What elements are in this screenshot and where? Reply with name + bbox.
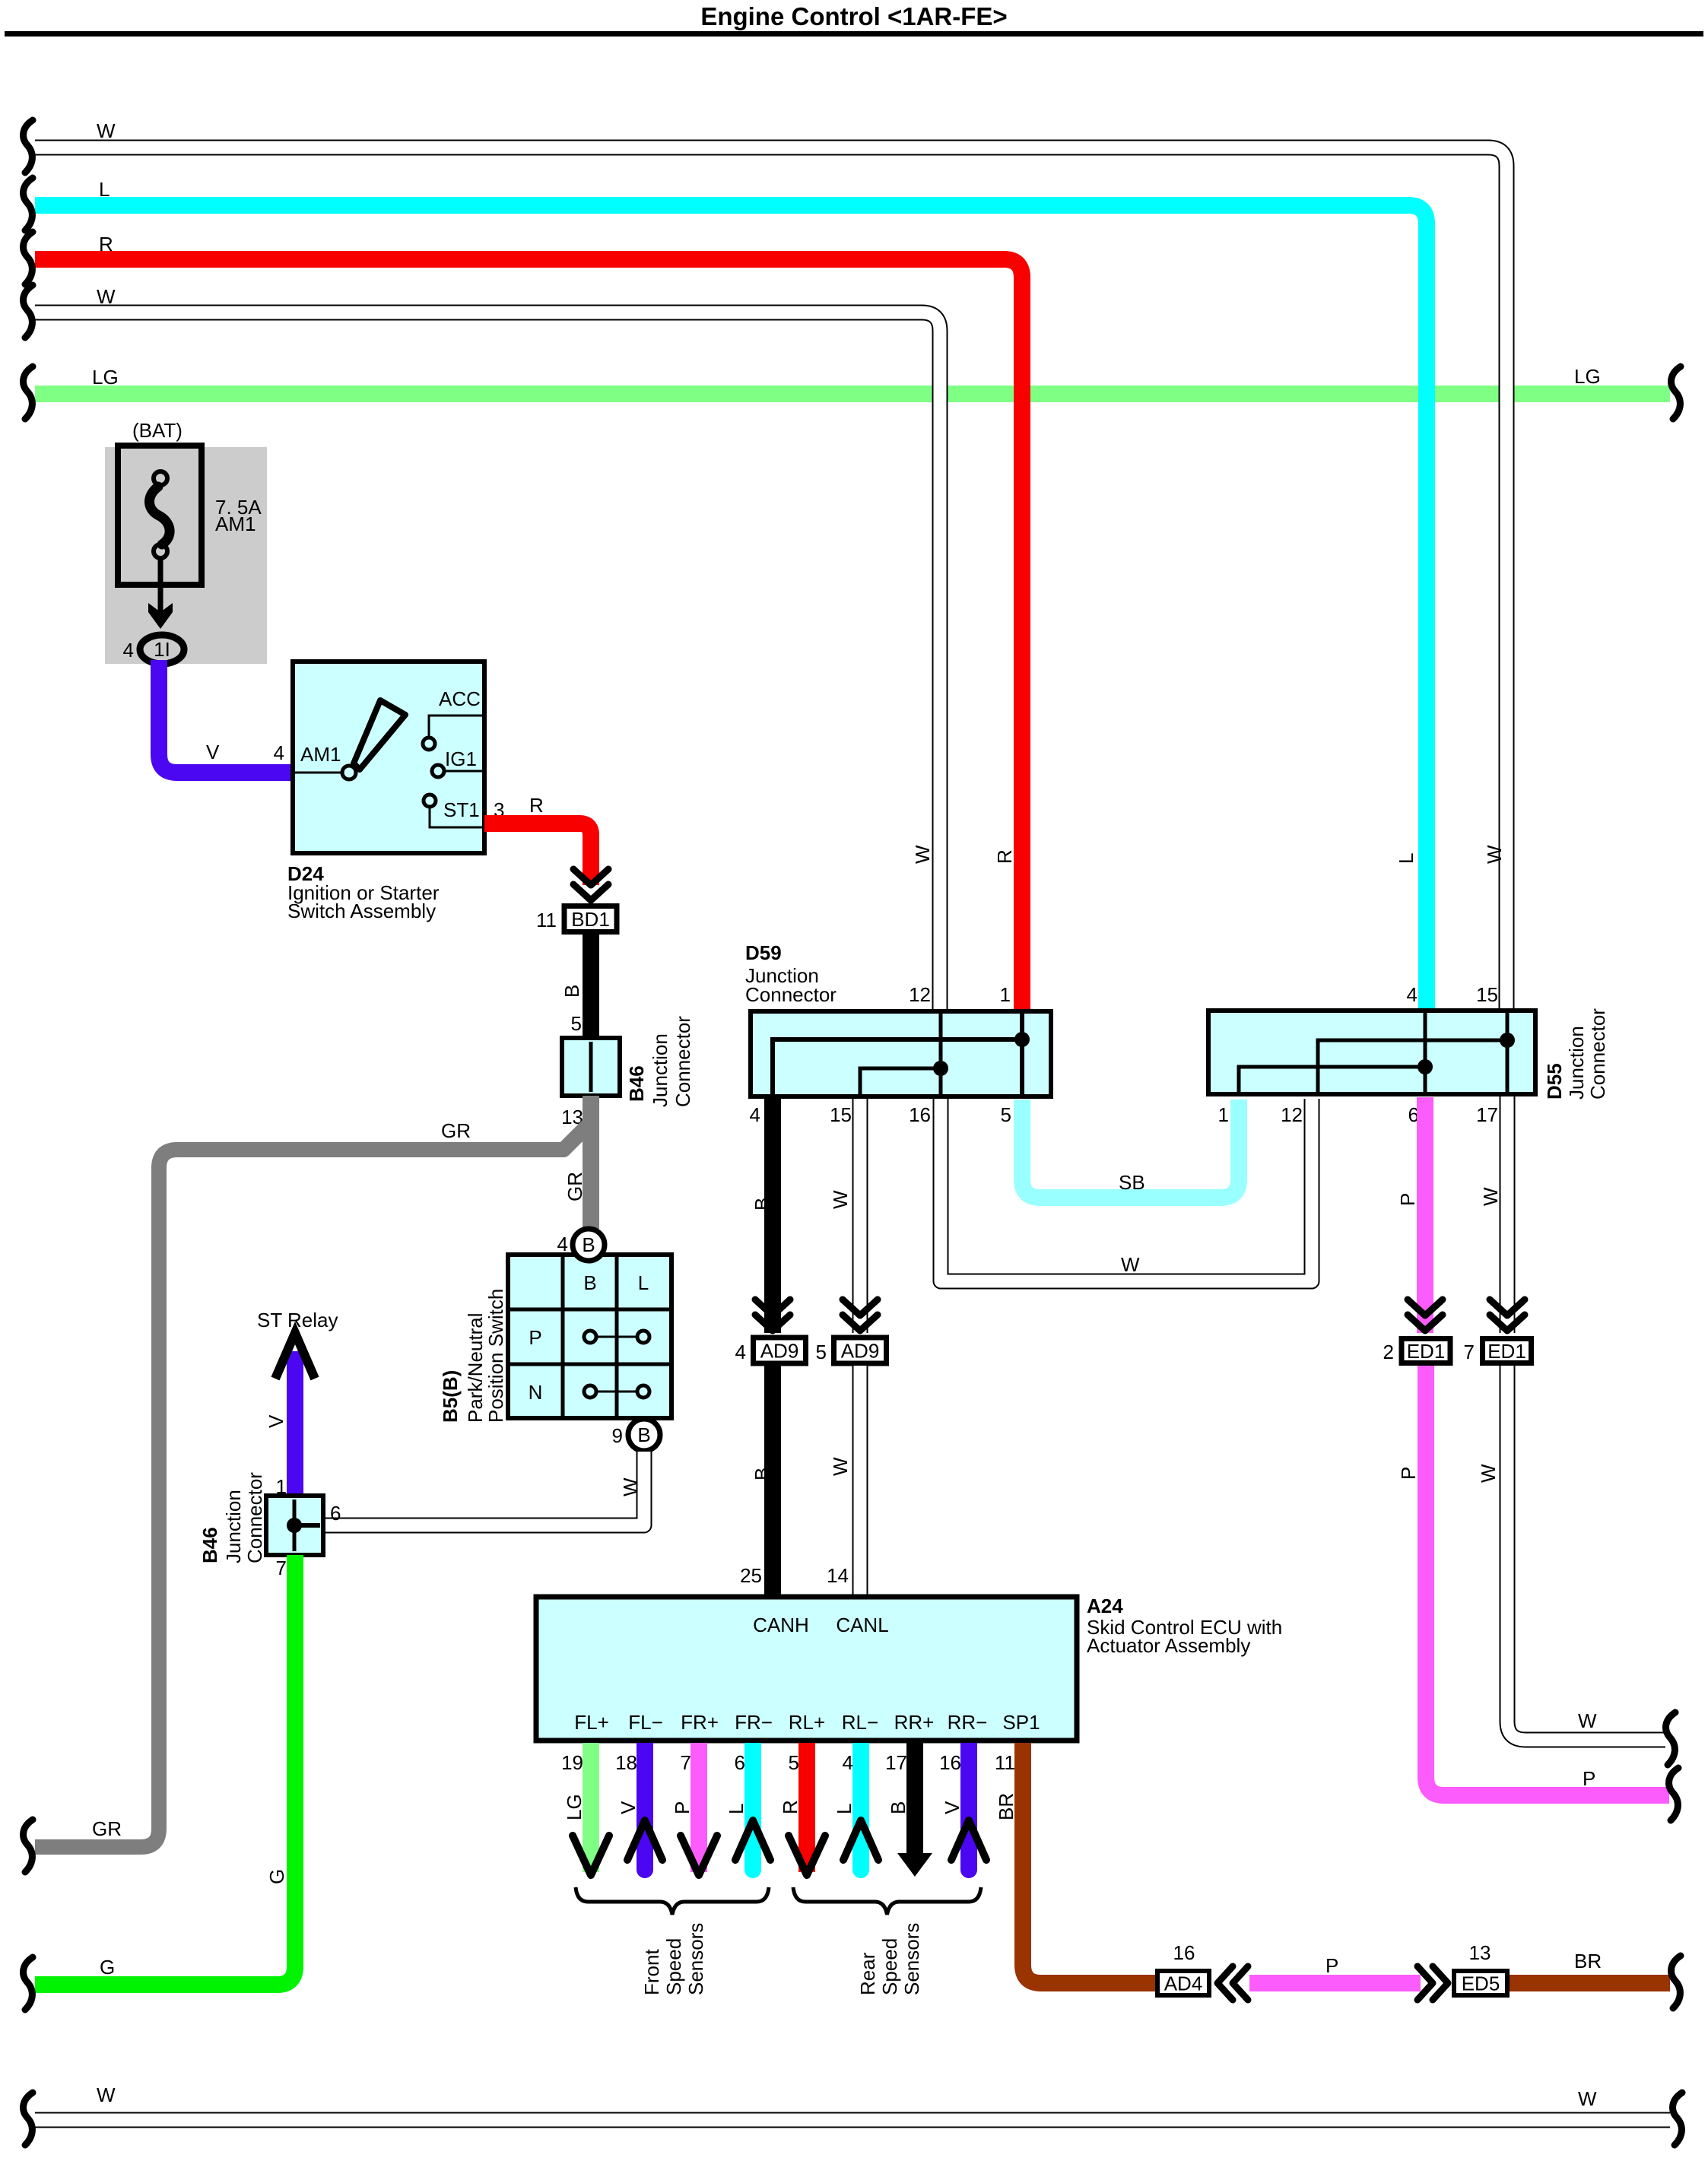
svg-text:P: P (1397, 1467, 1420, 1480)
svg-text:1: 1 (1218, 1103, 1229, 1126)
svg-text:Connector: Connector (745, 983, 837, 1006)
svg-text:1I: 1I (154, 638, 170, 661)
svg-text:W: W (829, 1457, 852, 1476)
svg-text:L: L (833, 1804, 856, 1814)
svg-text:P: P (1396, 1193, 1419, 1206)
svg-text:D59: D59 (745, 941, 782, 964)
svg-text:W: W (1479, 1187, 1502, 1206)
svg-text:9: 9 (612, 1424, 623, 1447)
svg-text:W: W (1578, 2087, 1597, 2110)
svg-text:Engine Control <1AR-FE>: Engine Control <1AR-FE> (700, 2, 1007, 30)
svg-text:AM1: AM1 (215, 513, 256, 535)
svg-text:5: 5 (789, 1751, 799, 1774)
svg-text:FL+: FL+ (574, 1711, 609, 1734)
svg-text:Rear: Rear (856, 1952, 879, 1995)
svg-text:5: 5 (1001, 1103, 1011, 1126)
svg-text:6: 6 (735, 1751, 745, 1774)
svg-text:5: 5 (816, 1341, 827, 1363)
svg-text:B46: B46 (625, 1065, 648, 1102)
svg-text:Position Switch: Position Switch (484, 1289, 507, 1423)
svg-text:RL−: RL− (842, 1711, 878, 1734)
svg-text:12: 12 (909, 983, 931, 1006)
svg-text:FR+: FR+ (681, 1711, 719, 1734)
svg-text:7: 7 (1464, 1341, 1475, 1363)
svg-text:GR: GR (92, 1817, 122, 1840)
svg-text:B: B (887, 1801, 910, 1814)
svg-text:P: P (1583, 1767, 1595, 1790)
svg-text:ED5: ED5 (1462, 1972, 1500, 1995)
svg-text:Speed: Speed (662, 1938, 685, 1995)
svg-text:16: 16 (909, 1103, 931, 1126)
svg-text:Connector: Connector (243, 1472, 266, 1563)
svg-text:W: W (619, 1477, 642, 1496)
svg-text:7: 7 (681, 1751, 691, 1774)
svg-text:A24: A24 (1087, 1595, 1123, 1617)
svg-text:Front: Front (640, 1949, 663, 1995)
svg-text:4: 4 (557, 1233, 568, 1255)
svg-text:GR: GR (441, 1119, 471, 1142)
svg-text:7: 7 (276, 1557, 287, 1579)
svg-text:LG: LG (1574, 365, 1601, 388)
svg-text:CANH: CANH (753, 1614, 809, 1636)
svg-text:LG: LG (92, 366, 119, 389)
svg-text:1: 1 (1000, 983, 1011, 1006)
svg-text:Junction: Junction (1565, 1026, 1588, 1100)
svg-text:G: G (265, 1869, 288, 1884)
svg-text:R: R (529, 794, 544, 817)
svg-text:SP1: SP1 (1002, 1711, 1040, 1734)
svg-text:Park/Neutral: Park/Neutral (464, 1313, 487, 1423)
svg-text:B: B (751, 1198, 773, 1211)
svg-text:AD9: AD9 (841, 1340, 880, 1363)
svg-text:17: 17 (885, 1751, 907, 1774)
svg-text:13: 13 (1469, 1941, 1491, 1964)
svg-text:18: 18 (615, 1751, 637, 1774)
svg-text:D55: D55 (1543, 1063, 1566, 1100)
svg-text:L: L (99, 178, 110, 201)
svg-text:Switch Assembly: Switch Assembly (287, 900, 436, 922)
svg-text:(BAT): (BAT) (132, 419, 183, 442)
svg-text:14: 14 (827, 1564, 849, 1587)
svg-text:L: L (638, 1271, 649, 1294)
svg-text:P: P (671, 1801, 694, 1814)
svg-text:B: B (560, 985, 583, 998)
svg-text:V: V (941, 1801, 964, 1814)
svg-text:B: B (583, 1271, 596, 1294)
svg-text:Connector: Connector (671, 1016, 694, 1107)
svg-text:17: 17 (1476, 1103, 1498, 1126)
svg-text:BR: BR (995, 1793, 1017, 1820)
svg-text:16: 16 (939, 1751, 961, 1774)
svg-text:Junction: Junction (222, 1490, 245, 1563)
svg-text:G: G (100, 1956, 115, 1979)
svg-text:15: 15 (1476, 983, 1498, 1006)
svg-text:B5(B): B5(B) (439, 1370, 462, 1423)
svg-text:AD9: AD9 (760, 1340, 799, 1363)
svg-text:Sensors: Sensors (684, 1923, 707, 1995)
svg-text:R: R (993, 849, 1016, 864)
svg-text:ED1: ED1 (1487, 1340, 1526, 1363)
svg-text:11: 11 (995, 1751, 1015, 1774)
svg-text:R: R (99, 233, 113, 255)
svg-text:B: B (637, 1423, 650, 1446)
svg-text:RR+: RR+ (894, 1711, 935, 1734)
svg-text:Connector: Connector (1586, 1008, 1609, 1100)
svg-text:N: N (529, 1381, 543, 1404)
svg-text:5: 5 (571, 1012, 582, 1035)
svg-text:L: L (1395, 853, 1418, 864)
svg-text:BD1: BD1 (571, 908, 610, 931)
svg-text:W: W (97, 285, 116, 308)
svg-text:W: W (911, 845, 934, 864)
svg-text:16: 16 (1173, 1941, 1195, 1964)
svg-text:19: 19 (561, 1751, 583, 1774)
svg-text:P: P (529, 1326, 541, 1349)
svg-text:W: W (1578, 1709, 1597, 1732)
svg-text:AM1: AM1 (300, 743, 341, 766)
svg-text:V: V (265, 1414, 287, 1428)
svg-text:Actuator Assembly: Actuator Assembly (1087, 1634, 1250, 1657)
svg-text:Junction: Junction (649, 1033, 671, 1107)
svg-text:ST1: ST1 (443, 798, 480, 821)
svg-text:W: W (97, 2083, 116, 2106)
svg-text:IG1: IG1 (445, 747, 477, 770)
svg-text:BR: BR (1574, 1950, 1602, 1972)
svg-text:25: 25 (740, 1564, 762, 1587)
svg-text:12: 12 (1281, 1103, 1303, 1126)
svg-text:FL−: FL− (628, 1711, 663, 1734)
svg-text:RR−: RR− (948, 1711, 988, 1734)
svg-text:SB: SB (1119, 1171, 1145, 1194)
svg-text:11: 11 (536, 909, 557, 931)
svg-text:4: 4 (123, 639, 134, 662)
svg-text:ACC: ACC (439, 687, 481, 710)
svg-text:L: L (725, 1804, 748, 1814)
svg-text:W: W (1121, 1253, 1140, 1276)
svg-text:4: 4 (1407, 983, 1418, 1006)
svg-text:ST Relay: ST Relay (257, 1309, 338, 1331)
svg-text:V: V (206, 741, 220, 763)
svg-text:W: W (97, 119, 116, 142)
svg-text:FR−: FR− (735, 1711, 773, 1734)
svg-text:B: B (582, 1233, 595, 1256)
svg-text:AD4: AD4 (1164, 1972, 1203, 1995)
svg-text:6: 6 (330, 1502, 341, 1525)
svg-text:CANL: CANL (836, 1614, 888, 1636)
svg-text:W: W (829, 1190, 852, 1209)
svg-text:4: 4 (735, 1341, 746, 1363)
svg-text:Speed: Speed (878, 1938, 901, 1995)
svg-text:RL+: RL+ (789, 1711, 825, 1734)
svg-text:4: 4 (750, 1103, 760, 1126)
svg-text:P: P (1325, 1954, 1338, 1977)
svg-text:4: 4 (274, 741, 284, 764)
svg-text:ED1: ED1 (1407, 1340, 1446, 1363)
svg-text:15: 15 (830, 1103, 852, 1126)
svg-text:W: W (1483, 845, 1506, 864)
svg-text:R: R (779, 1800, 802, 1814)
svg-text:Sensors: Sensors (900, 1923, 923, 1995)
svg-text:GR: GR (564, 1172, 586, 1201)
svg-text:4: 4 (843, 1751, 853, 1774)
svg-text:B: B (751, 1468, 773, 1480)
svg-text:V: V (617, 1801, 640, 1814)
svg-text:2: 2 (1383, 1341, 1394, 1363)
svg-text:LG: LG (563, 1794, 586, 1820)
svg-text:W: W (1477, 1464, 1500, 1483)
svg-text:B46: B46 (198, 1527, 221, 1563)
